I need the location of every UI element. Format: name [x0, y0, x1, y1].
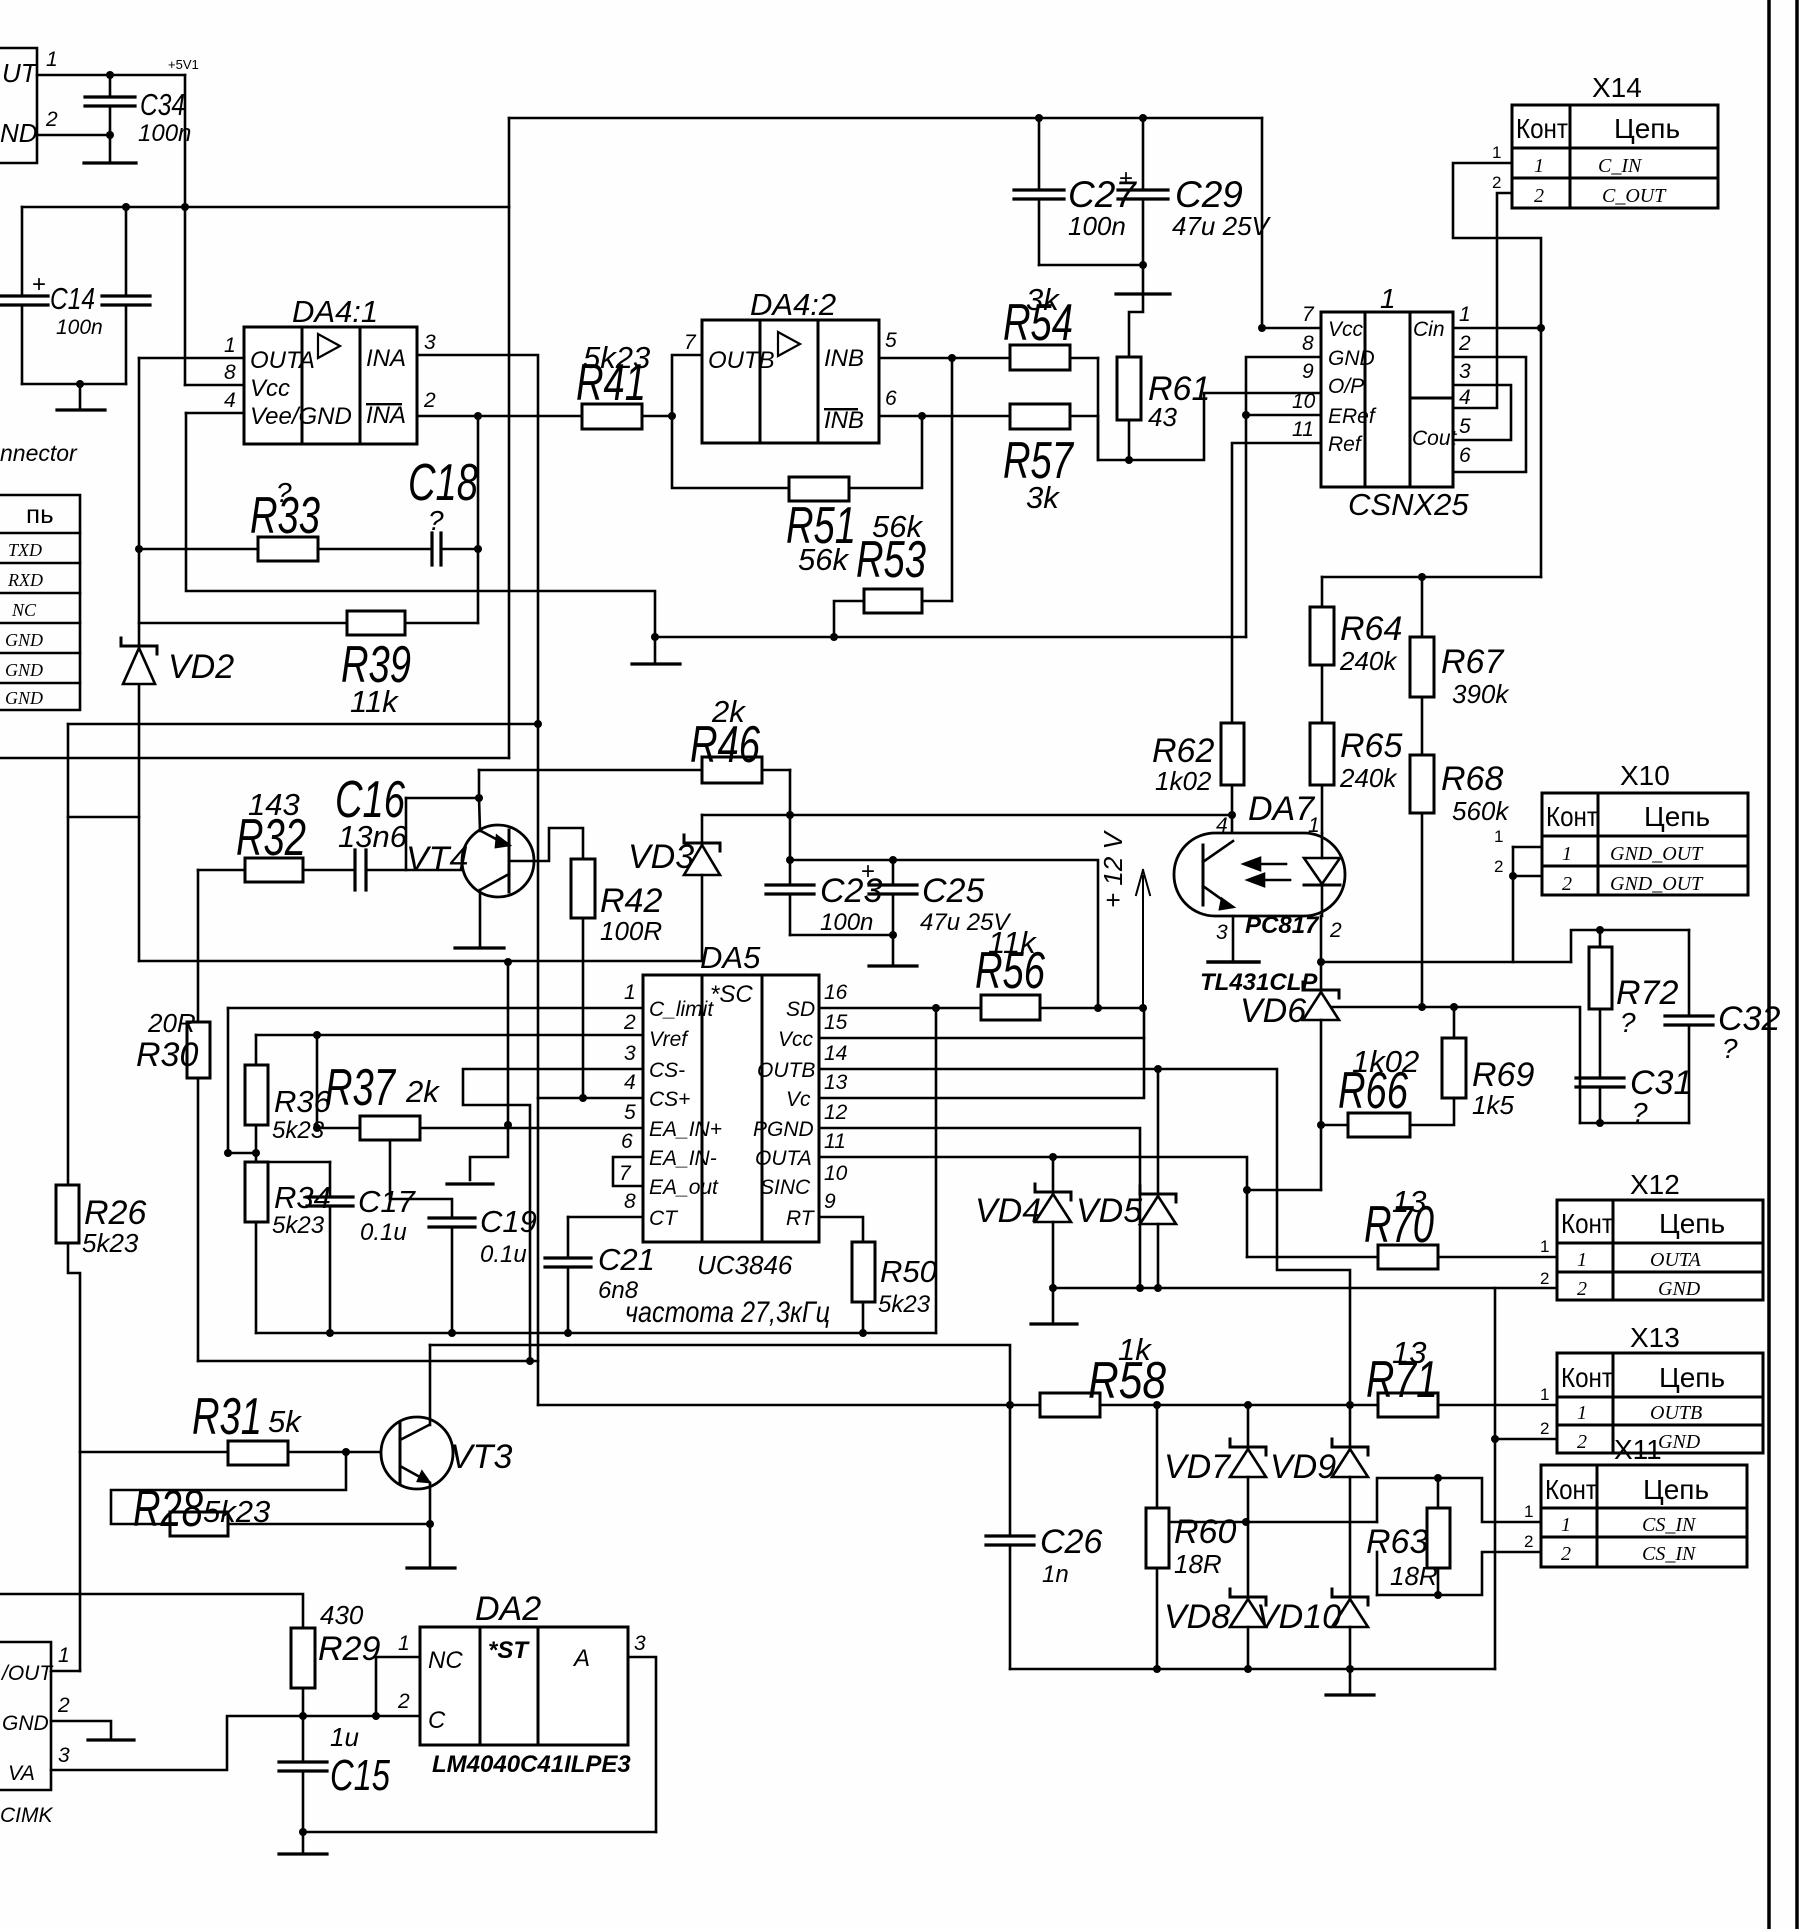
- wire R53 riser: [951, 358, 954, 601]
- svg-text:R41: R41: [576, 354, 646, 412]
- junction: [1434, 1591, 1442, 1599]
- wire pin4 Cout from X14-2: [1453, 193, 1512, 408]
- svg-text:1: 1: [1494, 827, 1503, 846]
- svg-text:DA4:2: DA4:2: [750, 287, 836, 322]
- svg-text:15: 15: [824, 1011, 848, 1034]
- ground under DA4:2: [654, 637, 657, 662]
- resistor R42: [571, 859, 595, 918]
- connector X14 table: [1512, 105, 1718, 208]
- wire R33 row: [139, 548, 258, 551]
- wire pin11 Ref: [1232, 443, 1321, 637]
- svg-text:Цепь: Цепь: [1659, 1208, 1725, 1239]
- wire R31 row: [80, 1451, 228, 1454]
- svg-text:GND: GND: [1658, 1278, 1701, 1300]
- ground: [57, 408, 105, 411]
- capacitor C27: [1038, 118, 1041, 190]
- svg-text:100n: 100n: [138, 120, 191, 147]
- svg-text:2: 2: [397, 1690, 410, 1713]
- junction: [135, 545, 143, 553]
- svg-text:Ref: Ref: [1328, 433, 1363, 456]
- junction: [1244, 1665, 1252, 1673]
- svg-text:VT4: VT4: [406, 840, 468, 878]
- svg-text:R65: R65: [1340, 727, 1402, 765]
- wire R26 top: [67, 1184, 70, 1187]
- junction: [830, 633, 838, 641]
- left connector table: [0, 495, 80, 710]
- wire ground jog at pin5: [470, 962, 508, 1180]
- wire CT row pin8: [568, 1216, 643, 1219]
- wire VD6 output row: [1321, 1007, 1580, 1123]
- svg-text:+: +: [1119, 165, 1133, 192]
- wire VT3 emitter down to ground: [429, 1483, 432, 1566]
- wire R36 top: [255, 1035, 258, 1065]
- svg-text:EA_IN+: EA_IN+: [649, 1118, 722, 1141]
- svg-text:GND: GND: [5, 688, 43, 708]
- svg-text:C_limit: C_limit: [649, 998, 714, 1021]
- svg-text:14: 14: [824, 1042, 847, 1065]
- svg-text:11k: 11k: [350, 684, 399, 719]
- wire pin2 INA- to R41: [417, 415, 582, 418]
- resistor R31: [228, 1441, 288, 1465]
- svg-text:5k: 5k: [268, 1404, 302, 1439]
- svg-text:Vc: Vc: [786, 1088, 811, 1111]
- wire R69 column: [1453, 1007, 1456, 1038]
- svg-text:VA: VA: [8, 1762, 35, 1785]
- junction: [1139, 1004, 1147, 1012]
- wire R46 row: [479, 769, 702, 772]
- svg-text:PGND: PGND: [753, 1118, 814, 1141]
- wire pin3/pin5 bracket: [1453, 385, 1511, 440]
- junction: [1139, 261, 1147, 269]
- junction: [1317, 958, 1325, 966]
- svg-text:1: 1: [398, 1632, 410, 1655]
- svg-text:12: 12: [824, 1101, 848, 1124]
- svg-text:R36: R36: [274, 1084, 332, 1119]
- wire rail y577: [1322, 576, 1541, 579]
- junction: [1317, 1121, 1325, 1129]
- svg-text:GND: GND: [5, 630, 43, 650]
- svg-text:R46: R46: [690, 716, 760, 774]
- resistor R41: [582, 404, 642, 429]
- ground under C15: [279, 1852, 327, 1855]
- svg-text:18R: 18R: [1390, 1561, 1438, 1591]
- svg-text:2: 2: [1494, 857, 1503, 876]
- wire C31/C32 bottom: [1580, 1122, 1689, 1125]
- capacitor C17: [329, 1162, 332, 1197]
- TL431 pin3 stem: [1232, 916, 1235, 962]
- capacitor C32: [1688, 930, 1691, 1016]
- wire pin1 to +5V1: [37, 74, 185, 77]
- wire GND column to X13/rail: [1494, 1288, 1497, 1669]
- svg-text:CS_IN: CS_IN: [1642, 1543, 1697, 1565]
- svg-text:*SC: *SC: [710, 981, 753, 1008]
- junction: [76, 380, 84, 388]
- capacitor C23: [766, 883, 814, 886]
- sheet border right: [1767, 0, 1771, 1929]
- svg-text:EA_out: EA_out: [649, 1176, 719, 1199]
- resistor R51: [789, 477, 849, 501]
- wire R37 to C19: [390, 1140, 452, 1218]
- svg-text:R31: R31: [192, 1388, 262, 1446]
- wire R46 right column: [789, 770, 792, 885]
- svg-text:47u 25V: 47u 25V: [1172, 211, 1272, 241]
- svg-text:?: ?: [1620, 1007, 1636, 1038]
- wire R42 bottom column: [582, 918, 585, 1098]
- wire R53 left jog: [834, 601, 864, 637]
- svg-text:5k23: 5k23: [82, 1228, 139, 1258]
- svg-text:240k: 240k: [1339, 763, 1398, 793]
- resistor R28: [170, 1512, 228, 1536]
- wire C18/R33 branch vertical: [477, 416, 480, 623]
- junction: [1154, 1065, 1162, 1073]
- wire R62 column: [1231, 637, 1234, 723]
- junction: [1242, 411, 1250, 419]
- wire pin2/pin6 bracket: [1453, 357, 1526, 472]
- svg-text:2: 2: [423, 389, 436, 412]
- wire Vee loop: [186, 413, 655, 637]
- junction: [534, 720, 542, 728]
- wire R53 right: [922, 600, 952, 603]
- wire R30 bottom link: [198, 1360, 538, 1363]
- zener VD2: [121, 645, 157, 648]
- svg-text:56k: 56k: [798, 542, 849, 577]
- svg-text:240k: 240k: [1339, 646, 1398, 676]
- svg-text:R28: R28: [133, 1480, 203, 1538]
- wire R54 row: [1070, 357, 1098, 360]
- svg-text:Конт: Конт: [1516, 113, 1568, 144]
- svg-text:CS_IN: CS_IN: [1642, 1514, 1697, 1536]
- svg-text:X10: X10: [1620, 760, 1670, 791]
- junction: [313, 1031, 321, 1039]
- wire VT3 collector up: [429, 1345, 432, 1425]
- resistor R68: [1410, 755, 1434, 813]
- svg-text:2: 2: [45, 108, 58, 131]
- svg-text:C: C: [428, 1707, 446, 1734]
- svg-text:100n: 100n: [56, 316, 103, 339]
- svg-text:Vcc: Vcc: [778, 1028, 814, 1051]
- svg-text:3k: 3k: [1026, 480, 1060, 515]
- svg-text:*ST: *ST: [488, 1637, 530, 1664]
- svg-text:2: 2: [57, 1694, 70, 1717]
- svg-text:ND: ND: [0, 118, 38, 148]
- wire +5V1 vertical: [184, 75, 187, 385]
- zener VD5: [1157, 1069, 1160, 1194]
- svg-text:10: 10: [1292, 390, 1316, 413]
- wire +12V rail y815: [702, 814, 1232, 817]
- wire X14 pin1: [1453, 163, 1541, 577]
- svg-text:LM4040C41ILPE3: LM4040C41ILPE3: [432, 1751, 631, 1778]
- junction: [372, 1712, 380, 1720]
- svg-text:SD: SD: [786, 998, 815, 1021]
- svg-text:1k02: 1k02: [1155, 766, 1212, 796]
- svg-text:5: 5: [1459, 415, 1471, 438]
- resistor R50: [852, 1242, 875, 1302]
- svg-text:GND: GND: [1328, 347, 1375, 370]
- svg-text:2: 2: [1492, 173, 1501, 192]
- zener VD7: [1247, 1405, 1250, 1447]
- svg-text:VT3: VT3: [450, 1438, 512, 1476]
- svg-text:2: 2: [1540, 1419, 1549, 1438]
- wire R71 row from OUTB: [1157, 1404, 1378, 1407]
- junction: [932, 1004, 940, 1012]
- junction: [948, 354, 956, 362]
- junction: [1035, 114, 1043, 122]
- svg-text:X14: X14: [1592, 72, 1642, 103]
- junction: [651, 633, 659, 641]
- svg-text:2: 2: [1524, 1532, 1533, 1551]
- junction: [1136, 1284, 1144, 1292]
- svg-text:C19: C19: [480, 1204, 537, 1239]
- junction: [224, 1149, 232, 1157]
- svg-text:?: ?: [1632, 1097, 1648, 1128]
- wire x509: [508, 207, 511, 758]
- svg-text:2: 2: [1540, 1269, 1549, 1288]
- svg-text:1n: 1n: [1042, 1561, 1069, 1588]
- capacitor C19: [429, 1216, 475, 1219]
- wire R64 column: [1321, 577, 1324, 607]
- junction: [1244, 1401, 1252, 1409]
- junction: [668, 412, 676, 420]
- wire CIMK pin1: [51, 1670, 80, 1673]
- svg-text:DA2: DA2: [475, 1590, 541, 1628]
- svg-text:INA: INA: [366, 402, 406, 429]
- wire C23/C25 top rail to Vcc node: [790, 860, 1098, 1008]
- svg-text:RT: RT: [786, 1207, 816, 1230]
- svg-text:7: 7: [1302, 303, 1315, 326]
- svg-text:2: 2: [1534, 185, 1544, 207]
- svg-text:GND_OUT: GND_OUT: [1610, 843, 1704, 865]
- junction: [1509, 872, 1517, 880]
- svg-text:C14: C14: [50, 281, 95, 316]
- svg-text:5: 5: [885, 329, 897, 352]
- pin8 wire: [185, 384, 244, 387]
- wire C14 bottom: [22, 383, 126, 386]
- svg-text:+: +: [861, 858, 875, 885]
- svg-text:GND: GND: [5, 660, 43, 680]
- IC DA5: [643, 975, 819, 1242]
- ground under C29: [1116, 292, 1170, 295]
- wire C_limit row pin1: [228, 1007, 643, 1010]
- resistor R51 right wire: [849, 416, 922, 488]
- svg-text:18R: 18R: [1174, 1549, 1222, 1579]
- svg-text:8: 8: [224, 361, 236, 384]
- connector X11 table: [1541, 1465, 1747, 1567]
- junction: [1153, 1401, 1161, 1409]
- node OUTA feedback vertical: [138, 358, 141, 646]
- svg-text:1: 1: [1492, 143, 1501, 162]
- svg-text:R66: R66: [1338, 1062, 1408, 1120]
- junction: [474, 545, 482, 553]
- resistor R64: [1310, 607, 1334, 665]
- svg-text:UT: UT: [2, 58, 39, 88]
- svg-text:5k23: 5k23: [203, 1494, 270, 1529]
- wire top rail y207: [22, 206, 509, 209]
- svg-text:R63: R63: [1366, 1523, 1428, 1561]
- svg-text:4: 4: [1216, 814, 1228, 837]
- svg-text:GND: GND: [1658, 1431, 1701, 1453]
- svg-text:Цепь: Цепь: [1659, 1362, 1725, 1393]
- svg-text:Конт: Конт: [1561, 1208, 1613, 1239]
- svg-text:X12: X12: [1630, 1169, 1680, 1200]
- wire zener rail y961: [139, 960, 702, 963]
- svg-text:1: 1: [58, 1644, 70, 1667]
- svg-text:C34: C34: [140, 87, 185, 122]
- svg-text:/OUT: /OUT: [0, 1662, 54, 1685]
- resistor R34: [245, 1162, 268, 1222]
- svg-text:1u: 1u: [330, 1722, 359, 1752]
- resistor R60: [1146, 1508, 1169, 1568]
- svg-text:3: 3: [634, 1632, 646, 1655]
- wire pin3 INA: [417, 355, 538, 1098]
- svg-text:100R: 100R: [600, 916, 662, 946]
- svg-text:INB: INB: [824, 407, 864, 434]
- svg-text:C15: C15: [330, 1751, 390, 1800]
- svg-text:OUTB: OUTB: [708, 347, 775, 374]
- svg-text:2: 2: [1561, 1543, 1571, 1565]
- wire CSNX25 Vcc pin7: [1261, 118, 1264, 328]
- connector X12 table: [1557, 1200, 1763, 1300]
- svg-text:R29: R29: [318, 1630, 380, 1668]
- svg-text:VD5: VD5: [1076, 1192, 1142, 1230]
- svg-text:Конт: Конт: [1561, 1362, 1613, 1393]
- svg-text:1: 1: [1540, 1385, 1549, 1404]
- junction: [786, 856, 794, 864]
- svg-text:R42: R42: [600, 882, 662, 920]
- zener VD6: [1303, 989, 1339, 992]
- resistor R72: [1589, 947, 1612, 1009]
- junction: [1243, 1186, 1251, 1194]
- svg-text:TXD: TXD: [8, 540, 42, 560]
- zener VD8: [1230, 1596, 1266, 1599]
- transistor VT4: [462, 825, 534, 897]
- wire DA2 pin1: [376, 1657, 420, 1716]
- wire VD6 node rail y962: [1320, 916, 1323, 990]
- junction: [326, 1329, 334, 1337]
- wire R39 row: [139, 622, 347, 625]
- svg-text:2k: 2k: [405, 1074, 440, 1109]
- svg-text:3: 3: [624, 1042, 636, 1065]
- wire OUTB row pin14: [819, 1069, 1350, 1405]
- wire R61 bracket: [1098, 358, 1321, 460]
- svg-text:5k23: 5k23: [272, 1117, 325, 1144]
- wire R32 row: [198, 869, 245, 872]
- junction: [1154, 1284, 1162, 1292]
- svg-text:R56: R56: [975, 942, 1045, 1000]
- svg-text:1: 1: [224, 334, 236, 357]
- svg-text:7: 7: [684, 331, 697, 354]
- svg-text:CS+: CS+: [649, 1088, 690, 1111]
- svg-text:INA: INA: [366, 345, 406, 372]
- svg-text:пь: пь: [26, 499, 54, 529]
- svg-text:1: 1: [1561, 1514, 1571, 1536]
- svg-text:390k: 390k: [1452, 679, 1510, 709]
- svg-text:R69: R69: [1472, 1056, 1534, 1094]
- resistor R36: [245, 1065, 268, 1125]
- svg-text:частота 27,3кГц: частота 27,3кГц: [625, 1296, 830, 1329]
- wire X10 riser: [1512, 847, 1515, 962]
- svg-text:CIMK: CIMK: [0, 1804, 53, 1827]
- svg-text:?: ?: [428, 505, 444, 536]
- svg-text:UC3846: UC3846: [697, 1250, 793, 1280]
- wire y758: [0, 757, 509, 760]
- svg-text:R58: R58: [1088, 1352, 1166, 1410]
- svg-text:1: 1: [624, 981, 636, 1004]
- junction: [526, 1357, 534, 1365]
- svg-text:A: A: [572, 1645, 590, 1672]
- wire R61 top to gnd node: [1129, 294, 1143, 357]
- svg-text:2: 2: [1562, 873, 1572, 895]
- svg-text:R53: R53: [856, 531, 926, 589]
- junction: [1258, 324, 1266, 332]
- capacitor C29: [1142, 118, 1145, 190]
- svg-text:C_IN: C_IN: [1598, 155, 1643, 177]
- wire DA4:2 pin7 loop: [672, 355, 789, 488]
- svg-text:0.1u: 0.1u: [360, 1219, 407, 1246]
- svg-text:9: 9: [824, 1190, 836, 1213]
- svg-text:Cout: Cout: [1412, 427, 1458, 450]
- svg-text:R68: R68: [1441, 760, 1503, 798]
- svg-text:Vref: Vref: [649, 1028, 689, 1051]
- svg-text:2: 2: [1458, 332, 1471, 355]
- wire DA2 R29 top rail: [0, 1594, 303, 1628]
- svg-text:VD7: VD7: [1164, 1448, 1231, 1486]
- wire x139 to x68 link: [68, 816, 139, 819]
- resistor R53: [864, 589, 922, 613]
- capacitor C21: [567, 1217, 570, 1258]
- resistor R71: [1378, 1393, 1438, 1417]
- resistor R56: [981, 995, 1040, 1020]
- junction: [504, 1121, 512, 1129]
- resistor R29: [291, 1628, 315, 1688]
- wire CSNX25 pin1 Cin: [1453, 327, 1541, 330]
- wire pin2: [37, 134, 110, 137]
- svg-text:GND_OUT: GND_OUT: [1610, 873, 1704, 895]
- svg-text:R71: R71: [1366, 1351, 1438, 1409]
- wire C23/C25 bottom + ground: [790, 934, 893, 937]
- svg-text:VD9: VD9: [1270, 1448, 1336, 1486]
- svg-text:+5V1: +5V1: [168, 57, 199, 72]
- wire bottom rail y1669: [1010, 1668, 1495, 1671]
- wire CS sense row y1522: [1157, 1521, 1377, 1524]
- svg-text:1: 1: [46, 48, 58, 71]
- junction: [1125, 456, 1133, 464]
- wire bottom rail: [303, 1831, 656, 1834]
- resistor R70: [1378, 1245, 1438, 1269]
- svg-text:C_OUT: C_OUT: [1602, 185, 1667, 207]
- DA7 arrows: [1248, 863, 1286, 866]
- svg-text:C26: C26: [1040, 1523, 1102, 1561]
- wire CS+ row pin4: [538, 1097, 643, 1100]
- svg-text:R33: R33: [250, 487, 320, 545]
- junction: [889, 856, 897, 864]
- junction: [579, 1094, 587, 1102]
- junction: [504, 958, 512, 966]
- wire R30 column: [197, 870, 200, 1022]
- capacitor C15: [279, 1760, 327, 1763]
- wire SD loop down: [935, 1008, 938, 1333]
- IC DA4:1 box: [244, 327, 417, 444]
- svg-text:100n: 100n: [820, 909, 873, 936]
- svg-text:11: 11: [824, 1130, 846, 1153]
- wire R29 bottom node: [302, 1688, 305, 1762]
- svg-text:0.1u: 0.1u: [480, 1241, 527, 1268]
- svg-text:Цепь: Цепь: [1614, 113, 1680, 144]
- junction: [342, 1448, 350, 1456]
- wire VT4 base step to R42: [509, 828, 583, 861]
- svg-text:5k23: 5k23: [272, 1212, 325, 1239]
- junction: [564, 1329, 572, 1337]
- svg-text:VD8: VD8: [1164, 1598, 1230, 1636]
